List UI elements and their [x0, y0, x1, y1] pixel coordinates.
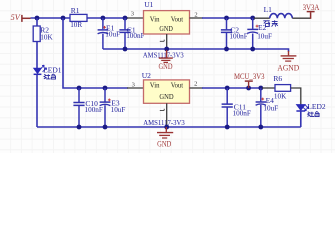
svg-text:L1: L1	[264, 5, 273, 14]
LED D1 LED1	[34, 65, 62, 74]
svg-text:GND: GND	[159, 24, 173, 33]
capacitor E3	[100, 88, 126, 127]
svg-text:3: 3	[132, 81, 135, 88]
ground AGND	[277, 51, 299, 73]
node junction C11 gnd	[225, 125, 230, 130]
wire LED1 to ground rail	[36, 74, 38, 127]
svg-text:AMS1117-3V3: AMS1117-3V3	[143, 118, 185, 127]
node junction C1 gnd	[123, 47, 128, 52]
node junction C10	[77, 86, 82, 91]
svg-text:10K: 10K	[40, 33, 53, 41]
label 磁珠 (L1)	[263, 20, 278, 26]
svg-text:U2: U2	[142, 71, 151, 80]
pin 3 of U2	[127, 87, 144, 89]
node junction MCU_3V3	[246, 86, 251, 91]
resistor R2	[33, 25, 53, 41]
node junction E1	[101, 16, 106, 21]
wire 5V top rail	[31, 17, 129, 19]
capacitor E4	[256, 88, 279, 127]
capacitor C2	[221, 18, 248, 49]
node junction E2 gnd	[250, 47, 255, 52]
svg-text:100nF: 100nF	[229, 32, 247, 40]
wire U1 Vout rail	[202, 17, 254, 19]
svg-text:R6: R6	[273, 74, 282, 83]
svg-text:100nF: 100nF	[85, 106, 103, 114]
op-amp U2 regulator AMS1117 box	[142, 71, 190, 127]
svg-text:Vout: Vout	[171, 15, 184, 24]
svg-text:MCU_3V3: MCU_3V3	[234, 72, 265, 81]
svg-text:R1: R1	[71, 6, 80, 15]
svg-text:5V: 5V	[11, 13, 21, 22]
node junction R2 tap	[35, 16, 40, 21]
svg-text:2: 2	[194, 11, 197, 18]
node junction C11	[225, 86, 230, 91]
svg-text:10uF: 10uF	[257, 33, 272, 41]
resistor R1	[70, 6, 87, 29]
port MCU_3V3	[234, 72, 265, 88]
node junction E4 gnd	[258, 125, 263, 130]
label 红色 (LED2)	[307, 112, 319, 117]
node junction E2	[250, 16, 255, 21]
op-amp U1 regulator AMS1117 box	[143, 0, 190, 59]
svg-text:100nF: 100nF	[233, 109, 251, 117]
wire digital ground rail	[37, 126, 301, 128]
svg-text:AGND: AGND	[277, 64, 299, 73]
node junction E3	[103, 86, 108, 91]
node junction E3 gnd	[103, 125, 108, 130]
node junction feed to U2	[61, 16, 66, 21]
capacitor C11	[222, 88, 251, 127]
resistor R6	[262, 74, 301, 105]
svg-text:Vout: Vout	[171, 80, 184, 89]
wire feed to bottom section	[63, 18, 128, 88]
ground GND under U1	[159, 50, 173, 71]
svg-text:U1: U1	[144, 0, 153, 9]
node junction C1	[123, 16, 128, 21]
LED D2 LED2	[296, 102, 325, 127]
svg-text:3V3A: 3V3A	[303, 3, 320, 12]
svg-text:10uF: 10uF	[263, 104, 278, 112]
svg-text:GND: GND	[159, 92, 174, 101]
svg-text:100nF: 100nF	[126, 32, 144, 40]
node junction U1 gnd	[164, 47, 169, 52]
pin 2 of U2	[190, 87, 204, 89]
wire R2/LED1 branch	[36, 18, 38, 68]
svg-text:3: 3	[131, 10, 134, 17]
port 5V	[11, 13, 31, 22]
node junction E4	[258, 86, 263, 91]
capacitor C1	[119, 18, 144, 49]
svg-text:10uF: 10uF	[111, 106, 126, 114]
svg-text:2: 2	[194, 80, 197, 87]
inductor L1 ferrite bead	[254, 5, 311, 18]
svg-text:GND: GND	[157, 140, 171, 149]
svg-text:Vin: Vin	[150, 80, 160, 89]
capacitor C10	[73, 88, 102, 127]
label 红色 (LED1)	[44, 74, 56, 79]
pin 1 GND of U1	[166, 34, 168, 49]
port 3V3A	[303, 3, 320, 19]
capacitor E1	[98, 18, 120, 49]
pin 1 GND of U2	[166, 103, 168, 127]
svg-text:Vin: Vin	[150, 15, 160, 24]
svg-text:10K: 10K	[274, 92, 287, 100]
node junction C2	[224, 16, 229, 21]
pin 2 of U1	[190, 17, 204, 19]
svg-text:10uF: 10uF	[105, 30, 120, 38]
svg-text:GND: GND	[159, 62, 173, 71]
wire analog ground rail	[103, 49, 289, 52]
node junction C10 gnd	[77, 125, 82, 130]
capacitor E2	[247, 18, 272, 49]
node junction U2 gnd	[164, 125, 169, 130]
svg-text:LED2: LED2	[307, 102, 326, 111]
wire U2 Vout rail	[202, 87, 263, 89]
ground GND under U2	[157, 127, 173, 149]
node junction C2 gnd	[224, 47, 229, 52]
svg-text:LED1: LED1	[43, 65, 62, 74]
svg-text:10R: 10R	[70, 21, 82, 29]
pin 3 of U1	[127, 17, 144, 19]
